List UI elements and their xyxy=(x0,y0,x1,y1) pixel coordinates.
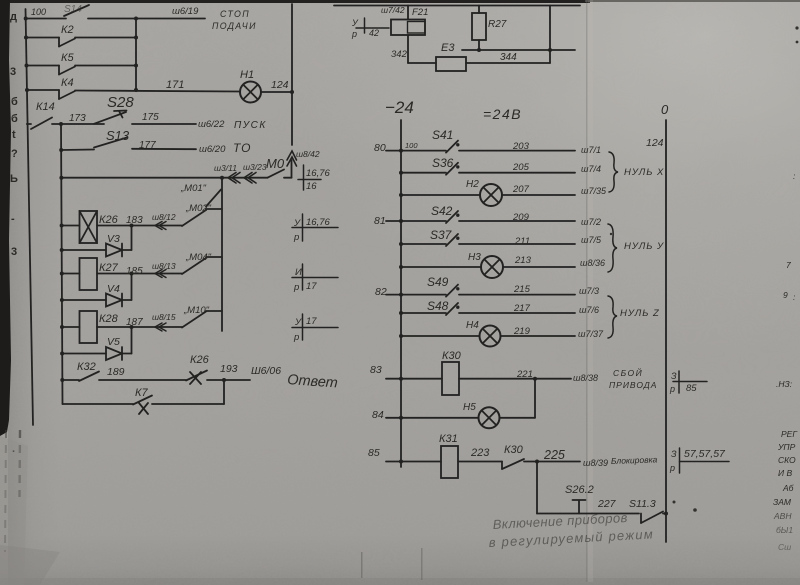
lamp H5 row xyxy=(401,379,535,429)
svg-text:ш8/38: ш8/38 xyxy=(573,373,598,383)
fuse F21 xyxy=(391,6,425,64)
svg-text:213: 213 xyxy=(514,255,532,266)
connector У/Р 42 xyxy=(356,18,389,33)
svg-text:81: 81 xyxy=(374,215,386,227)
device E3 xyxy=(408,57,550,71)
switch S41 row xyxy=(401,141,575,153)
arrow chevrons ш8/12 xyxy=(155,222,166,230)
svg-text:СТОП: СТОП xyxy=(220,9,250,19)
svg-text:S28: S28 xyxy=(107,94,134,111)
svg-text:S11.3: S11.3 xyxy=(629,498,656,510)
brace НУЛЬ X xyxy=(609,152,618,192)
svg-text:Е3: Е3 xyxy=(441,42,455,54)
svg-text:?: ? xyxy=(11,148,18,160)
svg-text:АВН: АВН xyxy=(773,511,792,521)
svg-text:F21: F21 xyxy=(412,7,428,18)
svg-text:16: 16 xyxy=(306,181,317,192)
wire: left supply bus 1 xyxy=(26,9,34,425)
svg-text:227: 227 xyxy=(597,498,617,510)
contact K4 xyxy=(27,90,240,99)
svg-text:84: 84 xyxy=(372,409,384,421)
svg-text:S41: S41 xyxy=(432,128,453,142)
contact M04 xyxy=(182,257,222,274)
svg-text:83: 83 xyxy=(370,364,382,376)
svg-text:7: 7 xyxy=(786,260,791,270)
svg-text:187: 187 xyxy=(126,317,143,328)
lamp H3 row xyxy=(401,256,575,278)
svg-text:РЕГ: РЕГ xyxy=(781,429,798,439)
svg-text:Н5: Н5 xyxy=(463,402,476,413)
svg-text:ш7/42: ш7/42 xyxy=(381,5,405,15)
lamp H2 row xyxy=(401,184,575,206)
wire: drop to S26.2 row xyxy=(536,462,538,514)
svg-text:Н1: Н1 xyxy=(240,69,254,81)
svg-text:ш7/4: ш7/4 xyxy=(581,164,601,174)
contact S14 (row 100 / ш6/19) xyxy=(26,5,206,19)
connector З/Р 85 xyxy=(673,371,707,393)
contact K14 xyxy=(27,118,104,130)
svg-text:ПУСК: ПУСК xyxy=(234,120,267,131)
svg-text:З: З xyxy=(671,371,677,381)
svg-text:17: 17 xyxy=(306,281,317,292)
svg-text:И В: И В xyxy=(778,468,792,478)
svg-text:217: 217 xyxy=(513,303,531,314)
switch S49 row xyxy=(401,285,575,297)
connector 16,76/16 xyxy=(298,165,321,190)
svg-text:К7: К7 xyxy=(135,387,148,399)
svg-text:„М10": „М10" xyxy=(183,305,210,316)
svg-text:ПОДАЧИ: ПОДАЧИ xyxy=(212,21,257,31)
svg-text:203: 203 xyxy=(512,141,530,152)
switch S48 row xyxy=(401,303,575,315)
svg-text:9: 9 xyxy=(783,290,788,300)
svg-text:85: 85 xyxy=(368,447,380,459)
svg-text:б: б xyxy=(11,96,18,108)
right margin cut texts xyxy=(773,171,798,552)
relay coil K30 row xyxy=(401,362,571,395)
svg-text:ш7/5: ш7/5 xyxy=(581,235,602,245)
svg-text:К14: К14 xyxy=(36,101,55,113)
switch S28 (row ПУСК) xyxy=(94,111,196,125)
svg-text:К5: К5 xyxy=(61,52,74,64)
svg-text:207: 207 xyxy=(512,184,530,195)
svg-text:И: И xyxy=(295,267,302,278)
svg-text:209: 209 xyxy=(512,212,530,223)
svg-text:S49: S49 xyxy=(427,275,449,289)
svg-text:S26.2: S26.2 xyxy=(565,484,594,496)
lamp H4 row xyxy=(401,326,575,347)
svg-text:р: р xyxy=(669,384,675,394)
svg-text:ш6/19: ш6/19 xyxy=(172,6,199,17)
lamp H1 xyxy=(240,82,292,103)
svg-text:З: З xyxy=(671,449,677,459)
contact K26 (crossed out) xyxy=(186,371,250,385)
svg-text:К2: К2 xyxy=(61,24,74,36)
contact K2 xyxy=(26,38,136,47)
svg-text:К26: К26 xyxy=(99,214,119,226)
svg-text:S14: S14 xyxy=(64,4,82,15)
svg-text:р: р xyxy=(351,29,357,39)
svg-text:177: 177 xyxy=(139,140,156,151)
wire: left branch bus 2 xyxy=(61,124,63,404)
svg-text:НУЛЬ У: НУЛЬ У xyxy=(624,241,664,252)
label Включение приборов в регулируемый режим xyxy=(488,510,654,550)
cut letters on left margin xyxy=(10,11,18,455)
svg-text:219: 219 xyxy=(513,326,531,337)
svg-text:ш7/3: ш7/3 xyxy=(579,286,599,296)
wire: vertical x=550 xyxy=(549,6,551,64)
switch S36 row xyxy=(401,163,575,175)
svg-text:К30: К30 xyxy=(442,350,462,362)
ink dots xyxy=(610,26,799,511)
svg-text:225: 225 xyxy=(543,448,565,462)
scan border top edge xyxy=(0,0,800,3)
svg-text:ш8/13: ш8/13 xyxy=(152,261,176,271)
svg-text:ш8/39: ш8/39 xyxy=(583,458,608,468)
svg-text:УПР: УПР xyxy=(777,442,796,452)
wire: M0 row xyxy=(61,176,267,180)
wire: vertical x=292 from top edge through node 124 to M0 xyxy=(290,4,294,178)
svg-text:р: р xyxy=(293,332,299,343)
svg-text:Сш: Сш xyxy=(778,542,791,552)
svg-text:t: t xyxy=(12,129,16,141)
svg-text:183: 183 xyxy=(126,215,143,226)
svg-text:.: . xyxy=(12,443,15,455)
svg-text:ТО: ТО xyxy=(233,141,251,155)
svg-text:СБОЙ: СБОЙ xyxy=(613,367,643,378)
svg-text:К30: К30 xyxy=(504,444,524,456)
svg-text:V4: V4 xyxy=(107,283,120,295)
wire: top rail xyxy=(334,5,580,7)
svg-text:К27: К27 xyxy=(99,262,119,274)
svg-text:211: 211 xyxy=(514,236,530,247)
svg-text:ш7/6: ш7/6 xyxy=(579,305,599,315)
node: junctions on bus2 xyxy=(59,122,64,382)
switch S37 row xyxy=(401,234,575,246)
svg-text:189: 189 xyxy=(107,366,125,378)
svg-text:К32: К32 xyxy=(77,361,96,373)
svg-text:-: - xyxy=(11,213,15,225)
svg-text:ПРИВОДА: ПРИВОДА xyxy=(609,380,657,390)
svg-text:Н4: Н4 xyxy=(466,320,479,331)
relay coil K31 row xyxy=(401,446,502,478)
svg-text:221: 221 xyxy=(516,369,533,380)
scan border left dark band xyxy=(0,0,60,585)
svg-text:р: р xyxy=(669,463,675,473)
svg-text:ш8/36: ш8/36 xyxy=(580,258,605,268)
svg-text:„М04": „М04" xyxy=(185,252,212,263)
svg-text:S37: S37 xyxy=(430,228,453,242)
relay coil K26 xyxy=(62,211,182,243)
svg-text:215: 215 xyxy=(513,284,531,295)
svg-text:205: 205 xyxy=(512,162,530,173)
contact M0 xyxy=(268,170,292,178)
relay coil K28 xyxy=(62,311,182,343)
svg-text:185: 185 xyxy=(126,266,143,277)
svg-text:R27: R27 xyxy=(488,19,507,30)
svg-text:0: 0 xyxy=(661,102,669,117)
brace НУЛЬ Z xyxy=(608,296,617,338)
wire: vertical tie x=136 joining top contact rows xyxy=(135,19,137,91)
svg-text:ш8/42: ш8/42 xyxy=(296,149,320,159)
brace НУЛЬ У xyxy=(608,224,617,272)
svg-text:ш7/2: ш7/2 xyxy=(581,217,601,227)
svg-text:НУЛЬ Z: НУЛЬ Z xyxy=(620,308,660,319)
svg-text:85: 85 xyxy=(686,383,697,394)
svg-text:„М02": „М02" xyxy=(185,203,212,214)
svg-text:82: 82 xyxy=(375,286,387,298)
svg-text:ш3/23: ш3/23 xyxy=(243,162,267,172)
contact K5 xyxy=(27,66,137,75)
node: switch blade tip dots (S41,S36,S42,S37,S49,S48) xyxy=(456,143,459,309)
contact M01 xyxy=(206,190,221,207)
fold crease vertical xyxy=(361,0,593,582)
relay coil K27 xyxy=(62,258,182,290)
connector У 16,76 / Р xyxy=(292,214,338,241)
connector З/Р 57,57,57 xyxy=(680,448,730,473)
svg-text:124: 124 xyxy=(646,137,664,149)
svg-text:223: 223 xyxy=(470,447,490,459)
arrow chevrons ш8/15 xyxy=(155,323,166,331)
contact K7 (crossed out, parallel branch) xyxy=(63,380,225,414)
label СТОП ПОДАЧИ xyxy=(212,9,257,31)
svg-text:Ь: Ь xyxy=(10,173,18,185)
diode V3 xyxy=(62,226,132,257)
svg-text:V3: V3 xyxy=(107,233,120,245)
svg-text:124: 124 xyxy=(271,79,289,91)
svg-text:16,76: 16,76 xyxy=(306,168,330,179)
svg-text:16,76: 16,76 xyxy=(306,217,330,228)
svg-text:3: 3 xyxy=(10,66,16,78)
svg-text:S48: S48 xyxy=(427,299,449,313)
wire: row 344 xyxy=(462,48,575,52)
svg-text:342: 342 xyxy=(391,49,408,60)
svg-text:д: д xyxy=(10,11,17,23)
svg-text:100: 100 xyxy=(31,7,46,17)
svg-text:р: р xyxy=(293,282,299,293)
wire: selector vertical x=222 xyxy=(221,178,223,331)
svg-text:193: 193 xyxy=(220,363,238,375)
svg-text:ш7/37: ш7/37 xyxy=(578,329,604,339)
svg-text:ш7/35: ш7/35 xyxy=(581,186,607,196)
svg-text:ш3/11: ш3/11 xyxy=(214,163,237,173)
svg-text:р: р xyxy=(293,232,299,243)
svg-text:Н2: Н2 xyxy=(466,179,479,190)
svg-text:3: 3 xyxy=(11,246,17,258)
svg-text:100: 100 xyxy=(405,141,418,150)
svg-text:М0: М0 xyxy=(266,156,285,171)
svg-text:„М01": „М01" xyxy=(180,183,207,194)
contact S11.3 xyxy=(641,512,666,524)
svg-text:171: 171 xyxy=(166,79,184,91)
wire: -24 main bus xyxy=(399,120,403,467)
svg-text:СКО: СКО xyxy=(778,455,796,465)
svg-text:42: 42 xyxy=(369,28,379,38)
svg-text:ш8/12: ш8/12 xyxy=(152,212,176,222)
arrow chevrons ш3/11 ш3/23 xyxy=(228,173,256,184)
svg-text:17: 17 xyxy=(306,316,317,327)
svg-text:S42: S42 xyxy=(431,204,453,218)
contact K32 xyxy=(62,372,186,382)
svg-text:S13: S13 xyxy=(106,128,130,143)
svg-text:ш6/20: ш6/20 xyxy=(199,144,226,155)
svg-text:175: 175 xyxy=(142,112,159,123)
wire: row tick stubs left of -24 bus xyxy=(386,151,401,462)
svg-text:Аб: Аб xyxy=(782,483,795,493)
diode V5 xyxy=(62,327,131,360)
diode V4 xyxy=(62,274,132,307)
wire: 0 bus right xyxy=(664,120,668,542)
svg-text:Ш6/06: Ш6/06 xyxy=(251,365,281,377)
svg-text:ш6/22: ш6/22 xyxy=(198,119,225,130)
svg-text:бЫ1: бЫ1 xyxy=(776,525,793,535)
svg-text:344: 344 xyxy=(500,52,517,63)
svg-text:Н3: Н3 xyxy=(468,252,481,263)
connector И / Р 17 xyxy=(292,264,338,290)
svg-text:57,57,57: 57,57,57 xyxy=(684,448,726,460)
svg-text:=24В: =24В xyxy=(483,106,522,122)
svg-text:К26: К26 xyxy=(190,354,210,366)
node: junctions on bus1 xyxy=(24,17,29,93)
svg-text:ш7/1: ш7/1 xyxy=(581,145,601,155)
svg-text:У: У xyxy=(294,317,302,328)
svg-text:173: 173 xyxy=(69,113,86,124)
svg-text:НУЛЬ X: НУЛЬ X xyxy=(624,167,664,178)
contact M10 xyxy=(182,311,222,328)
svg-text:У: У xyxy=(293,218,301,229)
svg-text:Блокировка: Блокировка xyxy=(611,454,658,466)
arrow chevrons ш8/13 xyxy=(155,270,166,278)
svg-text:ш8/15: ш8/15 xyxy=(152,312,176,322)
svg-text:К4: К4 xyxy=(61,77,74,89)
svg-text:ЗАМ: ЗАМ xyxy=(773,497,792,507)
contact M02 xyxy=(182,209,222,226)
switch S13 (row ТО) xyxy=(61,138,196,151)
svg-text:−24: −24 xyxy=(385,98,414,117)
svg-text:.НЗ:: .НЗ: xyxy=(776,379,793,389)
connector У 17 / Р xyxy=(292,314,338,340)
node: junctions on tie x=136 xyxy=(134,17,138,93)
svg-text:80: 80 xyxy=(374,142,386,154)
switch S42 row xyxy=(401,211,575,223)
svg-text:К28: К28 xyxy=(99,313,119,325)
switch S26.2 with T handle xyxy=(537,500,639,514)
svg-text:V5: V5 xyxy=(107,336,120,348)
arrow ш8/42 up-chevrons on x=292 xyxy=(287,151,297,166)
svg-text:S36: S36 xyxy=(432,156,454,170)
contact K30 xyxy=(502,459,580,469)
resistor R27 xyxy=(472,6,486,51)
svg-text:К31: К31 xyxy=(439,433,458,445)
svg-text:б: б xyxy=(11,113,18,125)
